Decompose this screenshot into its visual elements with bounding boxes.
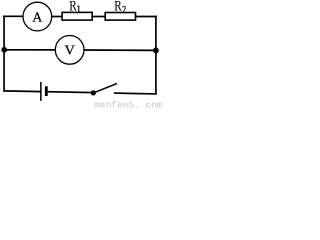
wire top-left segment xyxy=(4,15,22,17)
wire R2 to top-right corner xyxy=(136,16,156,18)
node junction right (voltmeter tap) xyxy=(153,48,159,54)
svg-text:V: V xyxy=(65,44,75,59)
label R1 xyxy=(69,0,81,16)
wire right rail xyxy=(155,17,157,94)
ammeter meter A xyxy=(23,2,52,31)
svg-text:R: R xyxy=(114,0,122,14)
battery short thick plate xyxy=(45,86,48,96)
svg-text:manfen5. com: manfen5. com xyxy=(94,100,163,110)
wire battery to switch xyxy=(48,91,94,94)
voltmeter meter V xyxy=(55,36,84,65)
wire R1 to R2 xyxy=(93,16,105,18)
wire voltmeter branch left xyxy=(4,49,55,51)
switch pivot dot xyxy=(91,90,96,95)
svg-text:A: A xyxy=(32,10,43,25)
wire bottom-left to battery xyxy=(4,90,41,93)
wire ammeter to R1 xyxy=(52,16,61,18)
wire switch to bottom-right corner xyxy=(115,92,156,95)
svg-text:2: 2 xyxy=(122,5,126,16)
wire left rail xyxy=(3,16,5,91)
node junction left (voltmeter tap) xyxy=(1,47,7,53)
switch lever xyxy=(93,84,117,93)
resistor R1 box xyxy=(62,12,92,20)
battery long thin plate xyxy=(40,82,42,101)
svg-text:1: 1 xyxy=(77,5,81,16)
resistor R2 box xyxy=(105,13,135,21)
label R2 xyxy=(114,0,126,16)
wire voltmeter branch right xyxy=(85,49,156,51)
